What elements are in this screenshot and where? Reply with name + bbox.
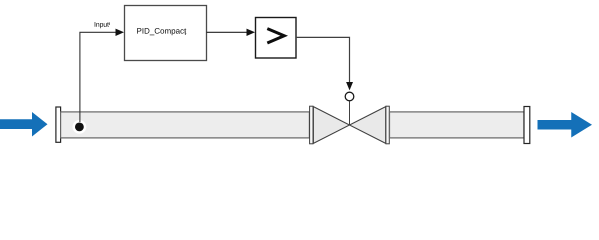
actuator node circle — [345, 92, 354, 101]
wire PID to comparator — [207, 29, 256, 36]
blue inflow arrow — [0, 112, 48, 137]
pipe flange right — [524, 107, 530, 144]
pipe right segment — [390, 112, 525, 138]
pipe left segment — [61, 112, 310, 138]
label Input — [95, 22, 110, 28]
comparator block — [256, 18, 297, 59]
valve V1 — [310, 106, 390, 144]
sensor node — [73, 120, 87, 134]
PID_Compact block U1 — [125, 6, 207, 61]
wire sensor to PID input — [80, 29, 124, 122]
wire comparator to valve actuator — [296, 37, 353, 90]
wire actuator to valve — [349, 101, 351, 125]
blue outflow arrow — [538, 112, 593, 138]
pipe flange left — [56, 107, 61, 142]
